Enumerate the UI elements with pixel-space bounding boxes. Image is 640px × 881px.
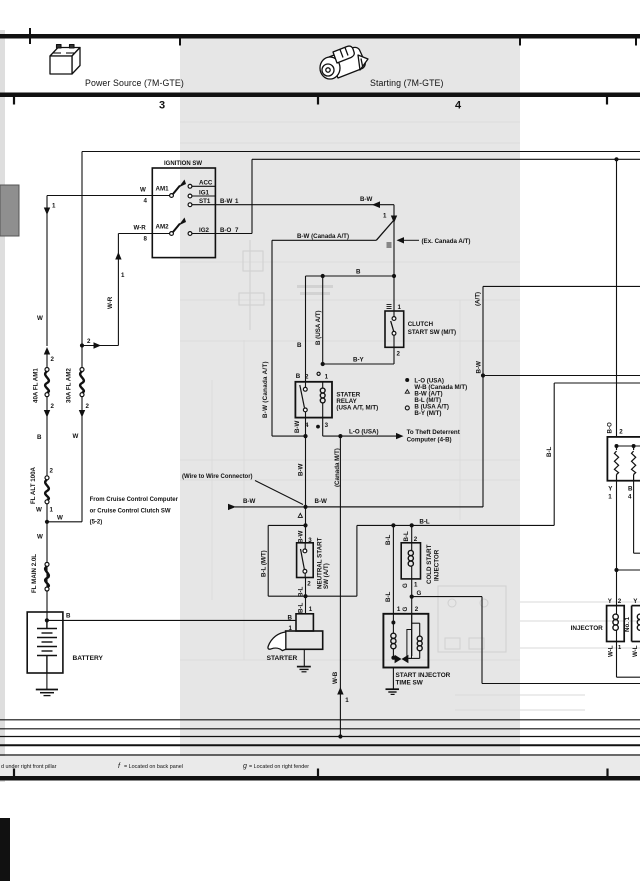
wire: B-L drop to cold start injector [403,525,418,542]
svg-text:g: g [243,763,247,770]
svg-text:Starting (7M-GTE): Starting (7M-GTE) [370,78,444,88]
svg-text:(A/T): (A/T) [475,292,482,306]
svg-text:1: 1 [414,582,418,589]
ghost lines right of column [455,602,640,710]
node: resistor bus left [615,444,619,448]
svg-text:W-R: W-R [107,296,114,309]
clutch start sw pin 1 [398,304,402,311]
svg-text:2: 2 [305,374,309,381]
node: NSS bottom junction [303,594,307,598]
terminal ACC [188,180,215,189]
time sw bimetal contact bowtie [393,655,408,664]
node: B-L tap to cold start injector [410,523,414,527]
left edge dark tab block [0,185,19,236]
legend wire color key [405,377,467,417]
ground bus line 3 [0,736,640,738]
svg-text:B-O: B-O [220,227,232,234]
wire: AM1 W lead [47,187,170,205]
node: W junction at fuse AM2 [80,338,91,348]
label B on horizontal [356,269,361,276]
injector No.2 box clipped [632,606,640,642]
cold start injector coil [408,543,413,579]
arrow right toward AM2 [94,342,102,348]
bottom left corner black block [0,818,10,881]
svg-text:TIME SW: TIME SW [396,680,424,687]
svg-text:B-W: B-W [298,463,305,476]
second black bar [0,93,640,98]
svg-text:W-L: W-L [607,645,614,657]
svg-text:B: B [66,613,71,620]
wire: B-L return from page 4 [554,383,640,525]
ground bus line 4 [0,744,640,746]
svg-text:B-Y: B-Y [353,357,365,364]
wire: W-B Canada M/T vertical [339,436,341,736]
svg-text:G: G [417,590,422,597]
annotation (Ex. Canada A/T) [397,237,471,245]
node: B-W A/T junction [481,373,485,377]
resistor R2 [632,446,636,481]
svg-text:B-L (M/T): B-L (M/T) [261,550,268,577]
arrow up on W-R drop [115,252,125,279]
svg-text:IG2: IG2 [199,227,210,234]
label B below fuse AM1 [37,434,42,441]
svg-text:1: 1 [608,493,612,500]
label B (USA A/T) rotated [315,310,322,345]
footer note g [243,763,309,770]
svg-text:2: 2 [51,403,55,410]
wire: L-O USA to theft deterrent [323,429,460,444]
fuse 30A FL AM2 [66,348,90,522]
starter solenoid terminal box [296,614,313,631]
ignition switch IGNITION SW box [152,168,215,258]
arrow up on W-B wire [337,687,349,704]
starter drive horn [268,632,286,651]
svg-text:FL MAIN 2.0L: FL MAIN 2.0L [31,554,38,593]
svg-text:IGNITION SW: IGNITION SW [164,161,202,167]
label Y injector 2 [633,598,638,605]
svg-text:B-L: B-L [419,518,430,525]
switch lever AM1 [173,180,186,195]
label STARTER [267,655,298,662]
label B on relay switch leg [297,342,302,349]
svg-text:B-W: B-W [315,498,328,505]
svg-text:B-W (Canada A/T): B-W (Canada A/T) [297,233,349,240]
node: G junction [410,595,414,599]
ghost text smudge [297,285,333,295]
svg-text:B-W: B-W [360,196,373,203]
svg-text:2: 2 [618,598,622,605]
wire: B-W Canada A/T left vertical [262,240,306,436]
wire: AM2 vertical W-R drop [82,234,118,346]
injector No.1 coil [613,606,618,642]
clutch start sw connector mark [387,305,392,309]
svg-text:1: 1 [50,507,54,514]
svg-text:B: B [628,486,633,493]
wire: B-O right vertical drop [616,159,618,437]
footer note f [118,763,183,770]
label B-W rotated above junction [476,361,483,374]
ground bus line 5 [0,754,640,756]
stater relay pins 2 and 1 [296,372,329,380]
wire: B-O top horizontal [252,158,640,160]
wire: B-O riser from IG2 [251,159,253,233]
svg-text:To Theft Deterrent: To Theft Deterrent [407,429,460,436]
annotation From Cruise Control [90,497,179,525]
stater relay STATER RELAY box [295,382,332,418]
time sw left branch coil [391,614,396,658]
terminal ST1 [188,198,211,206]
label Y 1 below resistor [608,486,613,501]
wire: W feed left vertical [81,152,83,347]
wire: Y branch to edge [617,569,640,571]
svg-text:8: 8 [144,236,148,243]
svg-text:G: G [402,583,409,588]
svg-text:B (USA A/T): B (USA A/T) [315,310,322,345]
footer gray strip [0,756,640,776]
Power Source title [85,78,184,88]
svg-text:B: B [296,373,301,380]
svg-text:2: 2 [619,429,623,436]
svg-text:B-L: B-L [546,446,553,457]
arrow down on B-W drop [391,216,397,224]
wire: B-W cruise horizontal [228,498,483,510]
svg-text:INJECTOR: INJECTOR [434,549,441,581]
label B-W rotated above cruise junction [298,463,305,476]
wire: B horizontal branch [306,276,395,382]
connector mark on B-W drop [387,243,392,247]
node: W-B Canada branch junction [338,434,342,438]
switch lever AM2 [173,218,186,233]
terminal IG1 [188,190,215,198]
label B-L pin 1 to starter [298,602,313,613]
svg-text:B-W (Canada A/T): B-W (Canada A/T) [262,361,269,418]
svg-text:B: B [288,614,293,621]
svg-text:W: W [57,515,63,522]
svg-text:W: W [73,433,79,440]
wire: B-L drop to time sw pin1 [385,525,401,613]
label INJECTOR [571,625,604,632]
ground bus line 2 [0,728,640,730]
ghost relay box echo lower [438,586,506,652]
svg-text:Computer (4-B): Computer (4-B) [407,437,452,444]
wire: AM2 W-R lead [118,224,169,242]
stater relay switch [300,382,307,418]
terminal AM2 [156,223,174,235]
svg-text:B-W: B-W [294,420,301,433]
label COLD START INJECTOR rotated [426,544,441,584]
svg-text:B: B [356,269,361,276]
svg-text:1: 1 [383,213,387,220]
label W below fuse AM2 [73,433,79,440]
wire: G from cold start injector [412,579,422,614]
node: B-Y junction [321,362,325,366]
svg-text:4: 4 [144,198,148,205]
svg-text:2: 2 [307,580,311,587]
connector triangle mark [298,513,302,517]
wire: NSS to starter [305,578,307,614]
wire: B-L feed to injector circuits [357,518,554,525]
header gray strip [180,39,520,93]
svg-text:B-L: B-L [385,534,392,545]
svg-text:ACC: ACC [199,180,213,187]
svg-text:B-W: B-W [243,498,256,505]
fuse FL ALT 100A [30,466,54,620]
svg-text:2: 2 [415,606,419,613]
Starting title [370,78,444,88]
svg-text:AM2: AM2 [156,223,170,230]
time sw bimetal channel [407,630,412,659]
clutch start sw contacts [391,311,396,347]
wire: IG2 B-O lead [192,227,252,234]
svg-text:30A FL AM2: 30A FL AM2 [66,368,73,403]
svg-text:2: 2 [414,536,418,543]
wire: W-L injector 1 to edge [617,642,640,678]
svg-text:2: 2 [397,351,401,358]
wire: Y feed down [616,481,618,606]
start injector time sw box [383,614,428,668]
terminal AM1 [156,186,174,198]
starter STARTER body box [286,631,323,649]
label NEUTRAL START SW (A/T) rotated [316,537,330,589]
svg-text:START INJECTOR: START INJECTOR [396,672,451,679]
svg-text:2: 2 [51,356,55,363]
svg-text:1: 1 [345,697,349,704]
svg-text:or Cruise Control Clutch SW: or Cruise Control Clutch SW [90,509,171,515]
svg-text:B-W: B-W [220,198,233,205]
node: W-B to ground bus [338,734,342,738]
wire: A/T branch to page 4 [483,286,640,507]
wire: B-W to page 4 [483,375,640,377]
clutch start sw pin 2 [397,351,401,358]
arrow left on ST1 wire [372,201,387,219]
column number 3 [159,100,165,112]
svg-text:7: 7 [235,227,239,234]
node: Y junction [614,568,618,572]
node: time sw contact [391,656,395,660]
node: B-W Canada junction [303,434,307,438]
svg-text:W: W [37,315,43,322]
wire: relay sw leg down B-W [306,418,323,526]
neutral start sw contacts [301,543,307,578]
label G pin 1 [402,582,418,589]
ground below battery [36,673,58,696]
cold start injector COLD START INJECTOR box [401,543,420,579]
svg-text:B: B [297,342,302,349]
svg-text:(5-2): (5-2) [90,519,103,525]
top black bar [0,34,640,39]
node: W junction above FL MAIN [45,515,82,524]
battery icon [50,45,80,75]
svg-text:B-L: B-L [403,531,410,542]
svg-text:B-W: B-W [298,530,305,543]
label B-L (M/T) rotated [261,550,268,577]
wire: main W feed top horizontal [82,151,640,153]
svg-text:From Cruise Control Computer: From Cruise Control Computer [90,497,179,503]
svg-text:= Located on right fender: = Located on right fender [249,764,309,770]
label START INJECTOR TIME SW [396,672,451,687]
node: battery positive junction [45,613,71,623]
injector resistor box [607,437,640,481]
svg-text:W: W [37,534,43,541]
node: NSS top junction [303,523,307,527]
gray diagram column [180,97,520,756]
svg-text:B: B [37,434,42,441]
svg-text:(Ex. Canada A/T): (Ex. Canada A/T) [422,238,471,245]
annotation (Wire to Wire Connector) [182,474,303,505]
page background left edge strip [0,30,5,782]
starter motor icon [320,46,368,79]
ground bus line 1 [0,719,640,721]
svg-text:B-W: B-W [476,361,483,374]
label B-L pin 2 [298,580,312,597]
wire: B-Y horizontal [323,347,394,364]
svg-text:2: 2 [87,338,91,345]
wire: battery B feed to starter [47,619,296,621]
svg-text:SW (A/T): SW (A/T) [323,563,330,589]
wire: B branch to edge [634,481,640,554]
node: B junction at clutch riser [392,274,396,278]
svg-text:B-L: B-L [385,591,392,602]
svg-text:AM1: AM1 [156,186,170,193]
svg-text:2: 2 [50,468,54,475]
svg-text:(Wire to Wire Connector): (Wire to Wire Connector) [182,474,253,480]
label No. 1 rotated [624,616,631,632]
wire: B-W Canada A/T horizontal [272,233,376,240]
wire: NSS switch feed [305,525,307,542]
battery box [27,612,63,673]
svg-text:FL ALT 100A: FL ALT 100A [30,466,37,504]
stater relay coil [320,382,325,418]
label IGNITION SW [164,161,202,167]
node: B-O junction [614,157,618,161]
svg-text:B-Y (M/T): B-Y (M/T) [414,410,441,417]
svg-text:(USA A/T, M/T): (USA A/T, M/T) [336,405,378,412]
ghost texture streaks [180,122,520,660]
label W-B rotated [332,671,339,684]
injector No.1 box [607,606,625,642]
wire: ST1 B-W lead [192,198,394,205]
svg-text:2: 2 [86,403,90,410]
svg-text:Power Source (7M-GTE): Power Source (7M-GTE) [85,78,184,88]
label (Canada M/T) rotated [334,448,341,487]
ticks above bottom bar [14,769,608,777]
svg-text:COLD START: COLD START [426,544,433,584]
svg-text:G: G [402,607,409,612]
wire: AM1 vertical W drop [46,196,48,347]
svg-text:1: 1 [121,272,125,279]
ghost box echo upper [239,240,264,330]
svg-text:1: 1 [398,304,402,311]
node: resistor bus right [632,444,636,448]
label W on AM1 drop [37,315,43,322]
svg-text:No. 1: No. 1 [624,616,631,632]
svg-text:INJECTOR: INJECTOR [571,625,604,632]
svg-text:40A FL AM1: 40A FL AM1 [33,368,40,403]
node: B-L tap to time sw [391,523,395,527]
svg-text:1: 1 [52,203,56,210]
svg-text:= Located on back panel: = Located on back panel [124,764,183,770]
label B-W on ST1 wire right [360,196,373,203]
node: cruise junction [303,505,307,509]
label W-L pin below injector 1 [607,645,622,657]
svg-text:START SW (M/T): START SW (M/T) [408,329,456,336]
label BATTERY [73,655,104,662]
label B 1 battery terminal [288,614,293,632]
svg-text:BATTERY: BATTERY [73,655,104,662]
label W-R rotated [107,296,114,309]
ground below time sw [386,668,400,695]
svg-text:B-O: B-O [606,422,613,434]
svg-text:1: 1 [397,606,401,613]
time sw center leg [411,614,413,656]
svg-text:4: 4 [455,100,462,112]
neutral start sw box [297,543,314,578]
label B-W pin 3 [298,530,313,544]
svg-text:STARTER: STARTER [267,655,298,662]
tick above/below top bar [30,28,636,46]
wire: B-W to clutch circuit right leg [306,506,484,508]
label W-L pin below injector 2 [632,645,639,657]
label B 4 below resistor [628,486,633,501]
label B-L rotated [546,446,553,457]
node: B junction on drop [321,274,325,278]
injector No.2 coil clipped [637,614,640,630]
svg-text:CLUTCH: CLUTCH [408,321,434,328]
time sw right branch coil [409,623,422,658]
wire: G to right edge [412,597,640,684]
svg-text:W: W [140,187,146,194]
label Y 2 injector [608,598,622,605]
stater relay pins 4 and 3 [294,420,329,433]
bottom black bar [0,776,640,781]
svg-text:3: 3 [159,100,165,112]
label (A/T) rotated [475,292,482,306]
fuse 40A FL AM1 [33,347,55,478]
svg-text:W-R: W-R [134,224,147,231]
battery cell plates [37,620,57,673]
ground below starter [297,649,311,672]
svg-text:W-B: W-B [332,671,339,684]
resistor R1 [614,446,618,481]
wire: B-L M/T bypass box [268,525,357,596]
wire: B-W vertical to diagonal [393,205,395,311]
svg-text:W: W [36,507,42,514]
svg-text:3: 3 [325,422,329,429]
label B-O pin 2 [606,422,623,436]
wire: resistor bus [617,445,640,447]
switch diagonal Canada A/T [376,220,394,240]
label STATER RELAY (USA A/T, M/T) [336,392,378,412]
svg-text:4: 4 [628,493,632,500]
svg-text:1: 1 [309,606,313,613]
ticks below second bar [14,97,607,105]
svg-text:L-O (USA): L-O (USA) [349,429,379,436]
node: time sw coil top [391,621,395,625]
svg-text:d under right front pillar: d under right front pillar [1,764,57,770]
terminal IG2 [188,227,209,236]
svg-text:B-L: B-L [298,602,305,613]
svg-text:Y: Y [608,486,613,493]
fuse FL MAIN 2.0L [31,534,49,594]
footer note d [1,764,57,770]
svg-text:1: 1 [235,198,239,205]
svg-text:W-L: W-L [632,645,639,657]
label G pin 2 time sw [402,606,419,613]
arrow down on AM1 drop [44,203,56,216]
svg-text:1: 1 [325,374,329,381]
column number 4 [455,100,462,112]
clutch start sw CLUTCH START SW (M/T) box [385,311,404,347]
